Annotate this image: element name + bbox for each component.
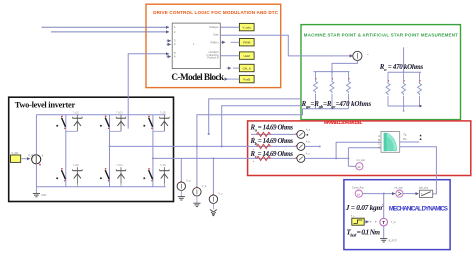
- svg-text:+: +: [253, 159, 255, 163]
- node: junction star link B / phase B: [221, 145, 223, 147]
- source: constant rotor speed (magenta circle): [352, 187, 364, 198]
- voltmeter VM1: [177, 158, 191, 190]
- svg-text:GND: GND: [41, 194, 47, 197]
- wire: artificial star bank bottom: [303, 108, 349, 110]
- svg-text:T bD3: T bD3: [116, 112, 123, 114]
- transistor Q1 (leg A top): [56, 115, 66, 132]
- resistor Rgb: [330, 72, 334, 109]
- sensor: rotational speed (magenta circle): [394, 187, 403, 198]
- wire: E1 bottom to dc- bus: [35, 164, 37, 187]
- svg-text:V_b: V_b: [202, 185, 207, 188]
- wire: star link B (L-shape): [222, 106, 301, 147]
- source: rot_spd (magenta circle): [356, 159, 366, 170]
- svg-text:Gate: Gate: [213, 34, 219, 37]
- node: junction speed branch / row: [347, 157, 349, 159]
- wire: VM4 to resistor bank top: [332, 61, 357, 72]
- pin labels U2: [378, 135, 380, 150]
- svg-text:Rn = 470 kOhms: Rn = 470 kOhms: [379, 64, 424, 72]
- ground below VM2: [193, 196, 200, 206]
- wire: phase B output: [110, 145, 297, 147]
- wire: machine star bank top: [388, 71, 421, 73]
- svg-text:Ra = 14.69 Ohms: Ra = 14.69 Ohms: [250, 125, 294, 133]
- svg-text:T bD4: T bD4: [116, 165, 123, 167]
- resistor Rnc: [418, 72, 422, 106]
- node: junction shaft: [383, 193, 385, 195]
- wire: phase C output: [153, 157, 297, 159]
- svg-text:spd_pos: spd_pos: [419, 187, 429, 190]
- node: star link A end: [208, 133, 210, 135]
- svg-text:rot_spd: rot_spd: [357, 159, 366, 162]
- svg-text:MAXWELL 2D FE MODEL: MAXWELL 2D FE MODEL: [324, 120, 363, 125]
- svg-text:T cD5: T cD5: [160, 112, 167, 114]
- constant block Vdc (yellow): [11, 155, 21, 162]
- wire: riser to FE block input B: [336, 142, 381, 158]
- svg-text:PosB: PosB: [243, 78, 250, 82]
- wire: U1 Voltages to tag G1: [220, 26, 239, 28]
- svg-text:A_b: A_b: [306, 140, 311, 143]
- resistor Rga: [314, 72, 318, 109]
- wire: Q2 to dc- bus: [65, 184, 67, 187]
- svg-text:Const_Rot: Const_Rot: [352, 187, 364, 190]
- wire: U2 position out to mechanics: [400, 147, 437, 194]
- FE model block U2 (Maxwell): [381, 132, 400, 153]
- goto tag G3: [239, 52, 254, 59]
- svg-text:T_L: T_L: [351, 215, 356, 218]
- diode D6: [160, 167, 170, 184]
- svg-text:V_c: V_c: [218, 193, 223, 196]
- wire: dc- bus: [36, 186, 165, 188]
- svg-text:V_DC: V_DC: [12, 151, 19, 155]
- goto tag G1: [239, 23, 254, 30]
- svg-text:MECHANICAL DYNAMICS: MECHANICAL DYNAMICS: [389, 206, 448, 212]
- node: junction on bank top: [331, 71, 333, 73]
- svg-text:MACHINE STAR POINT & ARTIFICIA: MACHINE STAR POINT & ARTIFICIAL STAR POI…: [304, 33, 458, 38]
- wire: drop to machine star bank: [403, 47, 405, 72]
- wire: U1 Gate output to green box voltmeter: [220, 35, 352, 56]
- svg-text:Two-level inverter: Two-level inverter: [15, 100, 76, 109]
- transistor Q3 (leg B top): [100, 115, 110, 132]
- svg-text:CM_A: CM_A: [243, 67, 251, 71]
- wire: dc-link sense into U1 pin 5: [128, 54, 169, 129]
- subsystem box: machine star point measurement (green): [301, 25, 461, 120]
- resistor Ra (red zigzag): [257, 132, 271, 136]
- voltmeter VM2: [193, 185, 207, 196]
- svg-text:V_dc: V_dc: [28, 153, 35, 157]
- svg-text:C-Model Block: C-Model Block: [171, 72, 225, 82]
- node: phase B tap: [109, 145, 111, 147]
- subsystem box: mechanical dynamics (blue): [344, 180, 450, 250]
- subsystem box: drive control logic (orange): [146, 4, 281, 87]
- dc voltage source E1: [28, 153, 43, 165]
- goto tag G2: [239, 39, 254, 46]
- svg-text:B_ROT: B_ROT: [389, 239, 398, 242]
- wire: stub to tag G4: [227, 67, 240, 69]
- pin labels right of U1: [207, 26, 220, 59]
- wire: star link C with step: [197, 109, 303, 188]
- resistor Rnb: [402, 72, 406, 106]
- ground below source: [33, 187, 47, 197]
- ammeter AM1: [296, 130, 305, 138]
- C-model block U1: [172, 23, 220, 69]
- voltmeter VM4 (star point, green box): [350, 51, 369, 60]
- svg-text:T aD1: T aD1: [73, 112, 80, 114]
- wire: machine star bank bottom: [388, 105, 420, 107]
- pin stub arrows U1 left pins 3,4,6: [167, 41, 171, 57]
- wire: U1 pin to tag G2: [220, 41, 239, 43]
- wire: U2 torque stub: [400, 141, 420, 143]
- resistor Rna: [386, 72, 390, 106]
- wire: Q4 to dc- bus: [109, 184, 111, 187]
- wire: to rotor speed source: [348, 165, 355, 167]
- node: phase C tap: [152, 157, 154, 159]
- wire: input 1 to U1: [42, 26, 169, 28]
- node: junction riser/row: [335, 157, 337, 159]
- wire: sensor to integrator: [403, 193, 418, 195]
- wire: star tap stub: [403, 106, 405, 111]
- diode D5: [160, 115, 170, 132]
- transistor Q2 (leg A bottom): [56, 167, 66, 184]
- svg-text:+: +: [350, 54, 352, 58]
- node: junction star link C / phase B wire: [196, 145, 198, 147]
- wire: leg C midpoint: [152, 131, 154, 167]
- svg-text:ω: ω: [357, 192, 360, 196]
- svg-text:T_m: T_m: [391, 221, 396, 224]
- diode D3: [116, 115, 126, 132]
- ammeter AM3: [296, 154, 305, 162]
- voltmeter VM3: [209, 157, 223, 203]
- rotational ground: [380, 239, 397, 243]
- svg-text:T cD6: T cD6: [160, 165, 167, 167]
- svg-text:ω: ω: [358, 165, 361, 169]
- svg-text:–: –: [367, 52, 369, 56]
- svg-text:DRIVE CONTROL LOGIC FOC MODUL: DRIVE CONTROL LOGIC FOC MODULATION AND D…: [153, 10, 279, 15]
- subsystem box: two-level inverter (black): [9, 97, 174, 201]
- wire: shaft node to torque source: [383, 194, 385, 219]
- block: speed to position: [419, 187, 433, 198]
- svg-text:Rb = 14.69 Ohms: Rb = 14.69 Ohms: [250, 138, 294, 146]
- svg-text:PWM: PWM: [243, 41, 251, 45]
- wire: speed branch vertical: [347, 148, 349, 167]
- diode D2: [73, 167, 83, 184]
- terminator arrows: [420, 134, 422, 136]
- transistor Q6 (leg C bottom): [143, 167, 153, 184]
- subsystem box: Maxwell 2D FE model (red): [248, 121, 471, 176]
- svg-text:T aD2: T aD2: [73, 165, 80, 167]
- goto tag G4: [239, 64, 254, 71]
- wire: U1 pin to tag G3: [220, 55, 239, 57]
- wire: dc+ bus: [36, 114, 165, 116]
- svg-text:PWM x: PWM x: [211, 41, 220, 44]
- wire: Q6 to dc- bus: [152, 184, 154, 187]
- resistor Rc (red zigzag): [257, 156, 271, 160]
- diode D4: [116, 167, 126, 184]
- wire: Vdc to source E1: [21, 158, 29, 160]
- wire: leg B midpoint: [109, 131, 111, 167]
- transistor Q4 (leg B bottom): [100, 167, 110, 184]
- svg-text:UaM: UaM: [244, 54, 251, 58]
- svg-text:Rga=Rgb=Rgc=470 kOhms: Rga=Rgb=Rgc=470 kOhms: [301, 101, 372, 109]
- wire: speed source to sensor: [363, 193, 395, 195]
- svg-text:C: C: [378, 143, 380, 146]
- wire: AM3 to FE block row: [305, 157, 348, 159]
- svg-text:Position B: Position B: [207, 57, 219, 60]
- wire: E1 top to dc+ bus: [35, 115, 37, 155]
- ground below VM1: [178, 191, 185, 201]
- pin labels left of U1: [174, 25, 195, 59]
- transistor Q5 (leg C top): [143, 115, 153, 132]
- svg-text:A_c: A_c: [306, 152, 311, 155]
- svg-text:V_a: V_a: [186, 180, 191, 183]
- wire: star link A (L-shape): [209, 99, 301, 134]
- wire: input 2 to U1: [51, 31, 169, 33]
- svg-text:T: T: [382, 220, 385, 225]
- wire: to FE block input D: [348, 147, 380, 149]
- wire: stub to tag G5: [228, 78, 240, 80]
- diode D1: [73, 115, 83, 132]
- wire: AM2 stub: [305, 145, 320, 147]
- svg-text:V_abc: V_abc: [242, 26, 251, 30]
- ground below VM3 (chevron): [210, 204, 217, 216]
- step source block (yellow): [351, 215, 365, 225]
- wire: Q5/D5 emitter join: [153, 130, 165, 132]
- svg-text:J = 0.07 kgm2: J = 0.07 kgm2: [345, 203, 385, 212]
- resistor Rb (red zigzag): [257, 144, 271, 148]
- ammeter AM2: [296, 142, 305, 150]
- wire: artificial star bank top: [314, 71, 350, 73]
- wire: leg A midpoint: [65, 131, 67, 167]
- node: AM1 output dot: [306, 134, 308, 136]
- goto tag G5: [239, 75, 254, 82]
- wire: phase A stub in red box: [251, 133, 297, 135]
- wire: Q1/D1 emitter join: [66, 130, 78, 132]
- svg-text:rot_spd: rot_spd: [394, 187, 403, 190]
- svg-text:Voltages: Voltages: [209, 26, 219, 29]
- resistor Rgc: [347, 72, 351, 109]
- wire: step to torque source: [364, 221, 368, 223]
- svg-text:Rc = 14.69 Ohms: Rc = 14.69 Ohms: [250, 151, 294, 159]
- svg-text:A_a: A_a: [306, 128, 311, 131]
- svg-text:+: +: [41, 154, 43, 158]
- torque source T (magenta circle): [380, 218, 396, 226]
- node: bottom stub arrow: [420, 105, 423, 108]
- wire: torque source to rotational ground: [383, 226, 385, 238]
- wire: Q3/D3 emitter join: [110, 130, 122, 132]
